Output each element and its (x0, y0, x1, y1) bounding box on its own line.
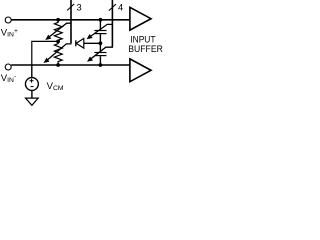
svg-text:VCM: VCM (47, 81, 64, 92)
svg-text:VIN-: VIN- (1, 73, 16, 84)
svg-text:VIN+: VIN+ (1, 28, 18, 39)
svg-text:BUFFER: BUFFER (128, 43, 163, 54)
svg-text:4: 4 (118, 3, 123, 13)
svg-text:3: 3 (77, 3, 82, 13)
